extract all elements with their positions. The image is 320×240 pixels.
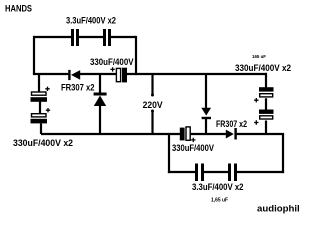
node lower stub end dot <box>151 110 154 113</box>
wire down-diode branch <box>205 74 207 134</box>
wire 220V source upper stub <box>151 74 153 95</box>
capacitor C10 3.3uF/400V (bottom pair, right) <box>228 164 237 182</box>
capacitor C6 330uF/400V electrolytic (left stack, lower) <box>31 114 48 124</box>
svg-text:165 uF: 165 uF <box>252 54 266 59</box>
svg-text:330uF/400V: 330uF/400V <box>90 57 134 68</box>
diode D4 FR307 (pointing right, on lower rail) <box>226 128 237 140</box>
capacitor C3 330uF/400V electrolytic (horizontal, upper rail) <box>116 68 127 83</box>
wire bottom-right loop bottom side <box>168 171 284 173</box>
svg-text:HANDS: HANDS <box>5 3 32 13</box>
wire lower main rail <box>41 133 284 135</box>
wire top-left loop right side <box>135 36 137 75</box>
diode D1 FR307 (pointing left, on upper rail) <box>68 70 80 80</box>
capacitor C9 3.3uF/400V (bottom pair, left) <box>195 164 204 182</box>
wire bottom-right loop left side <box>168 134 170 173</box>
wire bottom-right loop right side <box>282 134 284 173</box>
plus sign of C8 <box>254 120 258 124</box>
capacitor C1 3.3uF/400V (top pair, left) <box>71 29 79 46</box>
svg-text:1,65 uF: 1,65 uF <box>211 198 229 204</box>
wire left rail <box>33 36 35 74</box>
diode D3 FR307 (pointing down) <box>201 108 211 120</box>
wire top-left loop top side <box>34 36 136 38</box>
svg-text:330uF/400V: 330uF/400V <box>172 143 214 154</box>
wire upper main rail <box>33 73 267 75</box>
capacitor C7 330uF/400V electrolytic (right stack, upper) <box>259 87 274 97</box>
svg-text:FR307 x2: FR307 x2 <box>61 81 95 92</box>
capacitor C2 3.3uF/400V (top pair, right) <box>103 29 111 46</box>
svg-text:audiophile: audiophile <box>257 204 300 215</box>
svg-text:FR307 x2: FR307 x2 <box>216 118 247 129</box>
plus sign of C6 <box>46 108 50 112</box>
plus sign of C4 <box>191 138 195 142</box>
capacitor C5 330uF/400V electrolytic (left stack, upper) <box>31 92 48 102</box>
node upper stub end dot <box>151 94 154 97</box>
wire 220V source lower stub <box>151 111 153 134</box>
plus sign of C7 <box>254 98 258 102</box>
svg-text:330uF/400V x2: 330uF/400V x2 <box>235 63 291 74</box>
diode D2 FR307 (pointing up) <box>94 93 107 107</box>
svg-text:3.3uF/400V x2: 3.3uF/400V x2 <box>192 182 244 193</box>
wire left capacitor stack stubs <box>39 74 41 134</box>
plus sign of C5 <box>45 87 49 91</box>
capacitor C8 330uF/400V electrolytic (right stack, lower) <box>259 110 274 120</box>
svg-text:220V: 220V <box>143 99 164 110</box>
wire up-diode branch <box>99 74 101 134</box>
plus sign of C3 <box>110 67 114 71</box>
svg-text:3.3uF/400V x2: 3.3uF/400V x2 <box>66 16 116 27</box>
wire right capacitor stack stubs <box>265 73 267 134</box>
svg-text:330uF/400V x2: 330uF/400V x2 <box>13 138 73 149</box>
capacitor C4 330uF/400V electrolytic (horizontal, lower rail) <box>180 127 190 140</box>
